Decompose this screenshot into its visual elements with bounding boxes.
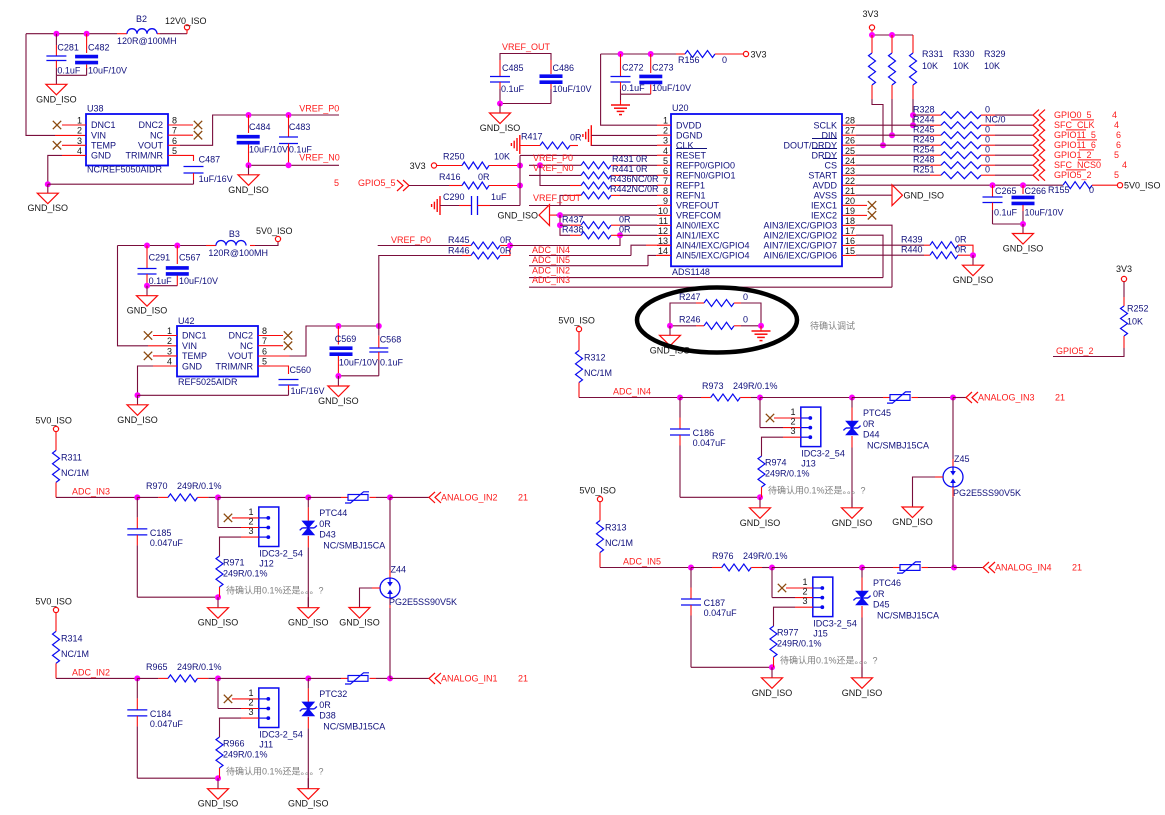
svg-text:120R@100MH: 120R@100MH xyxy=(208,248,268,258)
svg-text:GPIO5_2: GPIO5_2 xyxy=(1056,346,1094,356)
svg-text:0R: 0R xyxy=(319,700,331,710)
svg-text:5V0_ISO: 5V0_ISO xyxy=(35,596,72,606)
svg-text:21: 21 xyxy=(518,492,528,502)
pin stub right 15 xyxy=(842,254,856,256)
capacitor C484 xyxy=(248,115,250,133)
svg-text:GND_ISO: GND_ISO xyxy=(904,191,945,201)
svg-text:7: 7 xyxy=(663,176,668,186)
svg-text:REFN0/GPIO1: REFN0/GPIO1 xyxy=(676,171,736,181)
capacitor C486 xyxy=(550,60,552,74)
connector J15 IDC3-2_54 xyxy=(813,577,833,617)
svg-text:ANALOG_IN1: ANALOG_IN1 xyxy=(441,673,498,683)
svg-text:Z44: Z44 xyxy=(391,565,407,575)
svg-text:GND_ISO: GND_ISO xyxy=(1003,244,1044,254)
svg-text:IDC3-2_54: IDC3-2_54 xyxy=(801,449,845,459)
svg-text:DNC1: DNC1 xyxy=(182,331,207,341)
svg-text:1uF/16V: 1uF/16V xyxy=(291,386,325,396)
svg-text:0R: 0R xyxy=(955,235,967,245)
svg-text:R441 0R: R441 0R xyxy=(612,164,648,174)
wire VREF_P0 xyxy=(378,245,462,247)
svg-text:AIN6/IEXC/GPIO6: AIN6/IEXC/GPIO6 xyxy=(763,251,837,261)
capacitor C272 xyxy=(620,54,622,77)
svg-text:249R/0.1%: 249R/0.1% xyxy=(223,568,268,578)
svg-text:C281: C281 xyxy=(57,43,79,53)
svg-text:ANALOG_IN3: ANALOG_IN3 xyxy=(978,393,1035,403)
svg-text:0: 0 xyxy=(743,315,748,325)
svg-text:AIN0/IEXC: AIN0/IEXC xyxy=(676,221,720,231)
svg-text:249R/0.1%: 249R/0.1% xyxy=(765,469,810,479)
svg-text:2: 2 xyxy=(790,417,795,427)
pin stub left 13 xyxy=(657,244,671,246)
capacitor C560 xyxy=(279,379,299,381)
capacitor C186 0.047uF xyxy=(679,398,681,418)
no-connect X pin3 xyxy=(144,352,152,360)
wire ADC_IN3 xyxy=(56,496,137,498)
wire ADC_IN4 xyxy=(579,397,680,399)
svg-text:GND_ISO: GND_ISO xyxy=(842,688,883,698)
svg-text:PG2E5SS90V5K: PG2E5SS90V5K xyxy=(389,597,457,607)
svg-text:VREF_N0: VREF_N0 xyxy=(299,153,340,163)
ground xyxy=(217,597,219,608)
svg-text:TEMP: TEMP xyxy=(182,351,207,361)
svg-text:8: 8 xyxy=(262,326,267,336)
svg-text:R445: R445 xyxy=(448,235,470,245)
svg-text:NC/1M: NC/1M xyxy=(61,468,89,478)
gas discharge tube Z45 xyxy=(952,398,954,460)
wire pin14 step xyxy=(648,255,656,265)
svg-text:IDC3-2_54: IDC3-2_54 xyxy=(259,729,303,739)
pin stub 1 xyxy=(232,517,259,519)
svg-text:C568: C568 xyxy=(380,335,402,345)
pin stub right 18 xyxy=(842,224,856,226)
svg-text:SCLK: SCLK xyxy=(813,120,837,130)
wire xyxy=(338,375,378,377)
resistor R441 xyxy=(581,172,611,179)
svg-text:249R/0.1%: 249R/0.1% xyxy=(177,481,222,491)
svg-text:J15: J15 xyxy=(813,629,828,639)
svg-text:GND_ISO: GND_ISO xyxy=(318,396,359,406)
svg-text:0.1uF: 0.1uF xyxy=(149,276,173,286)
svg-text:GND_ISO: GND_ISO xyxy=(832,518,873,528)
wire VOUT xyxy=(168,144,180,146)
power 3V3 xyxy=(743,51,748,56)
svg-text:R311: R311 xyxy=(61,452,82,462)
wire xyxy=(137,777,218,779)
power 3V3 xyxy=(1121,276,1126,281)
connector J11 IDC3-2_54 xyxy=(259,688,279,728)
svg-text:U20: U20 xyxy=(672,103,689,113)
svg-text:15: 15 xyxy=(845,246,855,256)
ground xyxy=(307,597,309,608)
svg-text:GND_ISO: GND_ISO xyxy=(339,618,380,628)
pin stub right 27 xyxy=(842,134,856,136)
junction xyxy=(305,494,311,500)
svg-text:10uF/10V: 10uF/10V xyxy=(249,145,288,155)
svg-text:R251: R251 xyxy=(913,165,935,175)
pin stub 8 xyxy=(168,124,193,126)
svg-text:R440: R440 xyxy=(901,245,923,255)
svg-text:待确认用0.1%还是。。。?: 待确认用0.1%还是。。。? xyxy=(768,485,866,496)
capacitor C483 xyxy=(288,115,290,137)
wire ADC_IN3 xyxy=(529,286,892,288)
svg-text:CS: CS xyxy=(824,160,837,170)
svg-text:C486: C486 xyxy=(553,63,575,73)
svg-text:2: 2 xyxy=(248,516,253,526)
resistor R250 xyxy=(437,165,462,167)
svg-text:TRIM/NR: TRIM/NR xyxy=(126,151,164,161)
wire xyxy=(862,567,893,569)
svg-text:IDC3-2_54: IDC3-2_54 xyxy=(813,619,857,629)
pin stub right 23 xyxy=(842,174,856,176)
ground hatch right xyxy=(590,125,592,146)
fuse PTC45 xyxy=(890,395,910,401)
svg-text:0R: 0R xyxy=(863,419,875,429)
overline CS xyxy=(823,158,837,160)
wire DVDD rail xyxy=(601,53,676,55)
svg-text:B2: B2 xyxy=(136,14,147,24)
resistor R417 xyxy=(540,142,570,149)
svg-text:R416: R416 xyxy=(439,172,461,182)
resistor R246 xyxy=(670,325,696,327)
svg-text:待确认用0.1%还是。。。?: 待确认用0.1%还是。。。? xyxy=(226,765,324,776)
junction xyxy=(688,565,694,571)
svg-text:R328: R328 xyxy=(913,105,935,115)
no-connect X pin7 xyxy=(194,131,202,139)
svg-text:GPIO11_5: GPIO11_5 xyxy=(1054,130,1096,140)
resistor R312 NC/1M xyxy=(578,332,580,351)
pin stub right 26 xyxy=(842,144,856,146)
junction xyxy=(174,243,180,249)
pin stub left 14 xyxy=(657,254,671,256)
resistor R966 249R xyxy=(216,737,223,768)
svg-text:249R/0.1%: 249R/0.1% xyxy=(777,639,822,649)
svg-text:8: 8 xyxy=(172,116,177,126)
svg-text:5V0_ISO: 5V0_ISO xyxy=(579,486,616,496)
resistor R416 xyxy=(409,185,449,187)
junction xyxy=(757,494,763,500)
pin stub 7 xyxy=(168,134,193,136)
svg-text:0R: 0R xyxy=(619,215,631,225)
svg-text:25: 25 xyxy=(845,146,855,156)
power 3V3 xyxy=(869,25,874,30)
wire GND pin4 xyxy=(62,154,86,156)
svg-text:5V0_ISO: 5V0_ISO xyxy=(1124,181,1161,191)
svg-text:R249: R249 xyxy=(913,135,935,145)
svg-text:PTC45: PTC45 xyxy=(863,408,891,418)
svg-text:0R: 0R xyxy=(319,519,331,529)
junction xyxy=(859,565,865,571)
svg-text:23: 23 xyxy=(845,166,855,176)
resistor R431 xyxy=(581,162,611,169)
svg-text:C273: C273 xyxy=(652,63,674,73)
capacitor C487 xyxy=(184,166,204,168)
overline DRDY of DOUT/DRDY xyxy=(812,138,837,140)
svg-text:IEXC1: IEXC1 xyxy=(811,201,837,211)
wire ADC_IN2 xyxy=(529,277,883,279)
svg-text:249R/0.1%: 249R/0.1% xyxy=(743,551,788,561)
resistor R155 xyxy=(1063,182,1092,189)
wire pin3 xyxy=(241,536,259,538)
pin stub left 4 xyxy=(657,154,671,156)
svg-text:R247: R247 xyxy=(679,292,701,302)
IC U42 xyxy=(177,326,258,377)
wire xyxy=(680,496,760,498)
svg-text:VREF_N0: VREF_N0 xyxy=(533,163,574,173)
wire gnd bus xyxy=(560,215,570,235)
capacitor C281 xyxy=(55,34,57,45)
resistor R974 249R xyxy=(758,456,765,487)
junction xyxy=(648,51,654,57)
svg-text:NC/SMBJ15CA: NC/SMBJ15CA xyxy=(867,441,929,451)
capacitor C265 xyxy=(992,185,994,197)
svg-text:R155: R155 xyxy=(1048,185,1070,195)
svg-text:10K: 10K xyxy=(984,61,1000,71)
wire RESET bus xyxy=(519,155,521,205)
junction xyxy=(517,163,523,169)
wire ADC_IN5 xyxy=(529,265,648,267)
capacitor C266 xyxy=(1022,185,1024,194)
pin stub right 28 xyxy=(842,124,856,126)
pin stub 1 xyxy=(774,417,801,419)
svg-text:SFC_NCS0: SFC_NCS0 xyxy=(1054,160,1101,170)
svg-text:RESET: RESET xyxy=(676,150,707,160)
junction xyxy=(557,212,563,218)
svg-text:ADC_IN3: ADC_IN3 xyxy=(72,486,110,496)
no-connect X xyxy=(778,584,786,592)
svg-text:3: 3 xyxy=(77,136,82,146)
power 3V3 xyxy=(431,163,436,168)
svg-text:GND_ISO: GND_ISO xyxy=(28,203,69,213)
svg-text:ADC_IN5: ADC_IN5 xyxy=(532,255,570,265)
pin stub 8 xyxy=(258,335,283,337)
svg-text:0: 0 xyxy=(743,292,748,302)
resistor R156 xyxy=(676,53,685,55)
svg-text:10uF/10V: 10uF/10V xyxy=(553,84,592,94)
svg-text:U38: U38 xyxy=(87,104,104,114)
off-page connector GPIO11_5 xyxy=(1033,130,1045,141)
svg-text:VREF_OUT: VREF_OUT xyxy=(533,193,582,203)
svg-text:GND_ISO: GND_ISO xyxy=(36,94,77,104)
svg-text:B3: B3 xyxy=(229,229,240,239)
wire VREF_P0 riser xyxy=(379,256,462,327)
junction xyxy=(497,101,503,107)
svg-text:VIN: VIN xyxy=(182,341,197,351)
wire to AIN1 xyxy=(510,235,620,245)
wire xyxy=(760,397,852,399)
svg-text:ADC_IN2: ADC_IN2 xyxy=(72,667,110,677)
svg-text:C185: C185 xyxy=(150,528,172,538)
pin stub left 1 xyxy=(657,124,671,126)
resistor R331 xyxy=(871,35,873,53)
svg-text:NC/REF5050AIDR: NC/REF5050AIDR xyxy=(87,165,163,175)
svg-text:J12: J12 xyxy=(259,558,274,568)
junction xyxy=(1020,221,1026,227)
junction xyxy=(246,112,252,118)
wire xyxy=(500,103,551,105)
wire xyxy=(953,397,966,399)
svg-text:17: 17 xyxy=(845,226,855,236)
svg-text:R252: R252 xyxy=(1127,304,1149,314)
no-connect X IEXC1 xyxy=(856,204,867,206)
junction xyxy=(910,122,916,128)
svg-text:R331: R331 xyxy=(922,49,944,59)
svg-text:10uF/10V: 10uF/10V xyxy=(1025,208,1064,218)
no-connect X pin8 xyxy=(284,331,292,339)
svg-text:R329: R329 xyxy=(984,49,1006,59)
off-page connector ANALOG_IN3 xyxy=(966,392,978,403)
svg-text:ADC_IN3: ADC_IN3 xyxy=(532,275,570,285)
svg-text:10: 10 xyxy=(658,206,668,216)
power 5V0_ISO xyxy=(275,236,280,241)
svg-text:VREF_P0: VREF_P0 xyxy=(299,104,339,114)
svg-text:GND_ISO: GND_ISO xyxy=(752,688,793,698)
junction xyxy=(286,112,292,118)
resistor R313 NC/1M xyxy=(599,502,601,521)
svg-text:R976: R976 xyxy=(712,551,734,561)
svg-text:R312: R312 xyxy=(584,353,606,363)
diode D45 TVS xyxy=(861,568,863,578)
svg-text:R436NC/0R: R436NC/0R xyxy=(610,174,659,184)
svg-text:AVSS: AVSS xyxy=(814,191,837,201)
svg-text:27: 27 xyxy=(845,126,855,136)
svg-text:0.047uF: 0.047uF xyxy=(693,438,727,448)
svg-text:2: 2 xyxy=(167,336,172,346)
junction xyxy=(134,494,140,500)
svg-text:7: 7 xyxy=(262,336,267,346)
junction xyxy=(769,664,775,670)
ground xyxy=(248,165,250,175)
wire ADC_IN5 xyxy=(600,567,691,569)
ground xyxy=(337,376,339,386)
svg-text:D38: D38 xyxy=(319,710,336,720)
svg-text:0: 0 xyxy=(985,135,990,145)
svg-text:IDC3-2_54: IDC3-2_54 xyxy=(259,548,303,558)
off-page connector SFC_NCS0 xyxy=(1033,160,1045,171)
wire xyxy=(912,397,919,399)
svg-text:0: 0 xyxy=(985,165,990,175)
capacitor C290 xyxy=(440,205,459,207)
svg-text:7: 7 xyxy=(172,126,177,136)
svg-text:5: 5 xyxy=(334,178,339,188)
svg-text:J13: J13 xyxy=(801,459,816,469)
junction xyxy=(305,675,311,681)
pin stub left 7 xyxy=(657,184,671,186)
pin stub left 10 xyxy=(657,214,671,216)
svg-text:GND_ISO: GND_ISO xyxy=(228,185,269,195)
svg-text:0: 0 xyxy=(985,145,990,155)
no-connect X xyxy=(224,695,232,703)
svg-text:10uF/10V: 10uF/10V xyxy=(179,276,218,286)
ground xyxy=(912,497,914,508)
wire VOUT U42 xyxy=(258,355,290,357)
svg-text:R313: R313 xyxy=(605,523,627,533)
junction xyxy=(758,323,764,329)
svg-text:R966: R966 xyxy=(223,738,245,748)
svg-text:1: 1 xyxy=(77,116,82,126)
off-page connector SFC_CLK xyxy=(1033,120,1045,131)
svg-text:5: 5 xyxy=(1114,170,1119,180)
svg-text:NC/0: NC/0 xyxy=(985,115,1006,125)
svg-text:C487: C487 xyxy=(199,155,221,165)
svg-text:12: 12 xyxy=(658,226,668,236)
diode D44 TVS xyxy=(851,398,853,408)
pin stub 1 xyxy=(62,124,86,126)
svg-text:GND: GND xyxy=(182,361,203,371)
svg-text:4: 4 xyxy=(1112,110,1117,120)
junction xyxy=(144,283,150,289)
svg-text:3: 3 xyxy=(248,526,253,536)
pin stub 1 xyxy=(786,587,813,589)
resistor R311 NC/1M xyxy=(55,432,57,451)
svg-text:5: 5 xyxy=(262,357,267,367)
capacitor C291 xyxy=(146,246,148,269)
svg-text:2: 2 xyxy=(77,126,82,136)
off-page connector GPIO11_6 xyxy=(1033,140,1045,151)
resistor R248 xyxy=(856,164,930,166)
wire pin3 xyxy=(241,717,259,719)
svg-text:R330: R330 xyxy=(953,49,975,59)
no-connect X pin8 xyxy=(194,121,202,129)
resistor R251 xyxy=(856,174,930,176)
wire TRIM to C487 xyxy=(168,154,180,156)
ground xyxy=(55,75,57,84)
junction xyxy=(869,32,875,38)
resistor R328 xyxy=(913,114,930,116)
svg-text:3: 3 xyxy=(790,426,795,436)
annotation ellipse xyxy=(637,288,797,353)
ground xyxy=(851,497,853,508)
junction xyxy=(617,232,623,238)
svg-text:0.1uF: 0.1uF xyxy=(57,66,81,76)
svg-text:PG2E5SS90V5K: PG2E5SS90V5K xyxy=(953,488,1021,498)
svg-text:GND_ISO: GND_ISO xyxy=(892,517,933,527)
svg-text:10K: 10K xyxy=(953,61,969,71)
svg-text:4: 4 xyxy=(1122,160,1127,170)
svg-text:DVDD: DVDD xyxy=(676,120,702,130)
junction xyxy=(889,32,895,38)
wire xyxy=(218,677,308,679)
svg-text:R442NC/0R: R442NC/0R xyxy=(610,184,659,194)
no-connect X xyxy=(224,514,232,522)
resistor R314 NC/1M xyxy=(55,613,57,632)
svg-text:120R@100MH: 120R@100MH xyxy=(117,36,177,46)
svg-text:0.1uF: 0.1uF xyxy=(380,358,404,368)
svg-text:GND_ISO: GND_ISO xyxy=(480,123,521,133)
ground xyxy=(759,497,761,508)
off-page connector ANALOG_IN1 xyxy=(429,673,441,684)
svg-text:C485: C485 xyxy=(502,63,524,73)
svg-text:0: 0 xyxy=(985,155,990,165)
junction xyxy=(215,775,221,781)
svg-text:TRIM/NR: TRIM/NR xyxy=(216,361,254,371)
wire xyxy=(390,496,429,498)
resistor R439 xyxy=(856,244,924,246)
junction xyxy=(990,182,996,188)
svg-text:GPIO5_5: GPIO5_5 xyxy=(358,178,396,188)
svg-text:0R: 0R xyxy=(478,172,490,182)
resistor R970 249R xyxy=(137,496,158,498)
wire C487 to ground rail xyxy=(48,183,194,185)
resistor R244 xyxy=(856,124,930,126)
svg-text:ADS1148: ADS1148 xyxy=(672,267,710,277)
ground xyxy=(146,286,148,296)
pin stub 7 xyxy=(258,345,283,347)
wire xyxy=(852,397,883,399)
svg-text:R250: R250 xyxy=(443,152,465,162)
svg-text:DNC2: DNC2 xyxy=(228,331,253,341)
svg-text:NC/1M: NC/1M xyxy=(605,538,633,548)
svg-text:GPIO1_2: GPIO1_2 xyxy=(1054,150,1092,160)
